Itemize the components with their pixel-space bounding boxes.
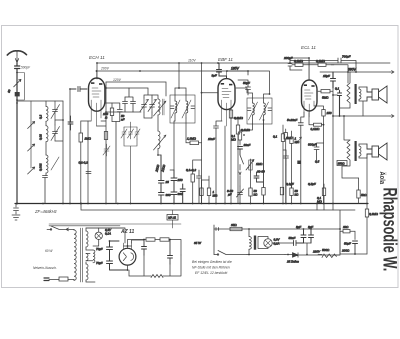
switch det: [239, 155, 244, 186]
wire vertical 88: [87, 121, 89, 204]
resistor 5MOhm ECL: [321, 90, 330, 93]
trimmer gang 1: [140, 98, 149, 112]
svg-text:35 W: 35 W: [194, 241, 202, 245]
svg-text:0,02: 0,02: [39, 134, 43, 140]
svg-text:50pF: 50pF: [243, 81, 250, 85]
arrow lead 1: [390, 71, 394, 74]
capacitor avc: [284, 150, 289, 165]
wire 174 vertical: [170, 121, 175, 170]
potentiometer 1MOhm: [246, 159, 254, 172]
wire 179 vertical: [175, 63, 186, 91]
wire IF1: [175, 88, 186, 121]
coil L3: [46, 155, 48, 173]
ground with 10nF: [12, 204, 20, 221]
junction osc dots: [105, 111, 107, 113]
power transformer secondary mid: [86, 254, 88, 261]
resistor 2k right: [343, 230, 350, 233]
IF2 capacitor a: [248, 108, 252, 111]
capacitor 330 osc: [159, 193, 165, 204]
trimmer small under ECH: [103, 144, 110, 156]
IF1 capacitor b: [191, 106, 195, 109]
wire avc branch: [283, 150, 286, 204]
svg-text:70μF: 70μF: [96, 247, 103, 251]
wire pot down: [250, 172, 252, 188]
svg-text:700pF: 700pF: [342, 55, 351, 59]
main ground bus: [15, 203, 368, 205]
coil osc 2: [158, 131, 160, 149]
svg-text:5MΩ: 5MΩ: [322, 96, 329, 100]
wire EBF cathode down: [224, 126, 226, 204]
wire gang top: [106, 88, 152, 98]
capacitor filter a: [142, 240, 147, 256]
capacitor osc b: [125, 88, 136, 112]
title Rhapsodie W rotated: [379, 188, 400, 272]
border frame of scanned page: [2, 26, 399, 288]
svg-text:Ω: Ω: [105, 116, 108, 120]
coil osc 1: [158, 99, 160, 115]
padder trimmer row: [121, 127, 127, 139]
wire MA11: [86, 210, 173, 228]
capacitor 25 osc: [159, 155, 165, 193]
wire diode left: [247, 254, 285, 256]
output transformer T1 primary: [340, 72, 351, 108]
wire padder row: [124, 122, 137, 204]
wire EBF11 grid left: [202, 93, 219, 180]
svg-text:0,1μF: 0,1μF: [286, 182, 294, 186]
IF1 arrows: [171, 100, 191, 118]
capacitor 70uF b: [107, 241, 128, 270]
svg-text:500Ω: 500Ω: [322, 248, 330, 252]
svg-text:MΩ: MΩ: [213, 194, 218, 198]
svg-text:9pF: 9pF: [212, 74, 217, 78]
output transformer T2 secondary: [359, 144, 367, 158]
svg-text:50nF: 50nF: [289, 236, 296, 240]
svg-text:0,5μF: 0,5μF: [308, 182, 316, 186]
svg-text:330: 330: [166, 193, 171, 197]
svg-text:30-80: 30-80: [257, 170, 265, 174]
resistor 0.2MOhm screen: [229, 110, 232, 118]
resistor det return b: [207, 188, 210, 196]
field coil zigzag: [151, 275, 163, 278]
lamp transformer primary: [249, 237, 251, 250]
resistor 0.1MOhm EBF: [236, 125, 239, 134]
svg-text:AZ 11: AZ 11: [120, 229, 134, 235]
svg-text:0,1MΩ: 0,1MΩ: [316, 59, 326, 63]
box MA11: [167, 215, 178, 221]
trimmer 8-50: [237, 186, 244, 204]
resistor small mid: [191, 174, 194, 182]
svg-text:150: 150: [327, 111, 332, 115]
speaker 1: [372, 89, 379, 100]
coil L1: [46, 106, 48, 121]
wire between filters: [155, 239, 160, 241]
connector heater: [214, 225, 219, 255]
capacitor 50pF: [227, 71, 251, 95]
output transformer T1 core: [355, 84, 357, 104]
wire zigzag: [318, 229, 340, 255]
wire field coil: [129, 255, 181, 276]
svg-text:0,1A: 0,1A: [274, 241, 280, 245]
trimmer cap T1: [51, 101, 60, 120]
capacitor 0.1 ECL: [338, 91, 342, 117]
wire ECL top loop: [290, 58, 309, 80]
resistor agc a: [280, 187, 283, 195]
rectifier AZ11: [119, 248, 136, 265]
svg-text:0,2: 0,2: [39, 114, 43, 119]
logo Aola rotated: [378, 172, 387, 185]
svg-text:390V: 390V: [348, 68, 357, 72]
resistor 0.1M det: [238, 132, 241, 140]
resistor 1MOhm grid: [79, 133, 83, 142]
capacitor filter b: [168, 240, 173, 265]
power transformer core: [81, 228, 83, 282]
switch tone: [297, 137, 302, 144]
wire 8uF join: [304, 243, 312, 255]
IF1 coil a: [175, 101, 177, 113]
IF2 capacitor b: [268, 108, 272, 111]
resistor det load: [262, 188, 265, 196]
wire lower heater bus: [81, 204, 355, 230]
resistor agc b: [290, 188, 293, 196]
fuse mains: [59, 277, 68, 281]
svg-text:kΩ: kΩ: [254, 193, 259, 197]
capacitor 500pF: [15, 63, 20, 204]
wire lamp transformer: [249, 229, 268, 255]
lamp dial 2: [264, 239, 272, 247]
resistor 500 Ohm zigzag: [322, 254, 336, 258]
svg-text:200V: 200V: [100, 67, 110, 71]
wire IF2 top: [248, 93, 270, 124]
svg-text:25 Zellen: 25 Zellen: [286, 260, 299, 264]
capacitor 2000: [43, 176, 48, 204]
capacitor 50-80: [254, 120, 264, 204]
tube ECL11: [302, 80, 318, 111]
resistor 0.2MOhm right: [365, 209, 368, 217]
speaker 2: [372, 146, 379, 157]
svg-text:5÷20nF: 5÷20nF: [287, 118, 297, 122]
svg-text:60 W: 60 W: [45, 249, 53, 253]
capacitor 330b: [171, 188, 177, 204]
svg-text:70μF: 70μF: [96, 261, 103, 265]
capacitor 100pF: [70, 87, 87, 92]
wire 200V rail: [97, 71, 270, 94]
capacitor 10nF EBF: [214, 121, 223, 204]
svg-text:0,1A: 0,1A: [105, 232, 111, 236]
resistor det return a: [200, 188, 203, 196]
trimmer arrow osc 2: [154, 135, 167, 150]
svg-text:0,002: 0,002: [39, 163, 43, 171]
junction dots mid: [201, 92, 203, 94]
resistor 5MOhm avc: [281, 134, 284, 142]
wire coil column: [45, 101, 47, 176]
resistor 0.1MOhm ECL b: [318, 63, 326, 66]
wire 110V rail: [97, 63, 390, 79]
svg-text:10nF: 10nF: [244, 143, 251, 147]
resistor 150 cathode: [322, 110, 325, 117]
wire vertical 63: [55, 101, 63, 204]
capacitor electrolytic ECL: [297, 161, 300, 165]
trimmer cap T2: [51, 125, 60, 141]
capacitor cathode: [112, 103, 122, 204]
svg-text:EF 12/EL 12 bestückt: EF 12/EL 12 bestückt: [195, 271, 228, 275]
wire feedback osc: [144, 112, 161, 155]
capacitor 88 branch: [86, 172, 91, 174]
svg-text:MΩ: MΩ: [317, 200, 322, 204]
svg-text:0,1-0,2: 0,1-0,2: [79, 161, 89, 165]
svg-text:kΩ: kΩ: [295, 193, 300, 197]
antenna: [7, 51, 26, 55]
wire band switch rail: [30, 101, 32, 168]
svg-text:EBF 11: EBF 11: [218, 57, 233, 62]
svg-text:5kΩ: 5kΩ: [361, 193, 367, 197]
capacitor coupling ECL grid: [298, 112, 304, 204]
svg-text:MΩ: MΩ: [231, 138, 236, 142]
resistor filter a: [146, 238, 155, 241]
svg-text:0,2MΩ: 0,2MΩ: [369, 212, 379, 216]
core osc 1: [163, 99, 165, 115]
output transformer T1 secondary: [359, 87, 367, 116]
svg-text:0,1MΩ: 0,1MΩ: [311, 127, 321, 131]
capacitor 10nF det: [238, 147, 243, 156]
capacitor 700pF: [290, 58, 356, 72]
capacitor cathode bypass mid: [180, 184, 185, 204]
resistor grid b: [290, 137, 293, 144]
wire antenna bypass: [17, 73, 24, 101]
IF2 coil b: [264, 103, 266, 115]
svg-text:Äola: Äola: [378, 172, 387, 185]
resistor grid a: [284, 133, 287, 140]
tube ECH11: [89, 78, 105, 111]
svg-text:MΩ: MΩ: [295, 140, 300, 144]
svg-text:50μF: 50μF: [344, 242, 351, 246]
svg-text:1MΩ: 1MΩ: [256, 162, 263, 166]
svg-text:0,1: 0,1: [335, 87, 340, 91]
svg-text:35Ω: 35Ω: [231, 223, 237, 227]
power transformer secondary HT top: [86, 231, 88, 247]
svg-text:110V: 110V: [188, 59, 196, 63]
coil L2: [46, 126, 48, 142]
resistor filter b: [160, 238, 169, 241]
switch band 1: [28, 122, 35, 129]
wire EBF anode to IF2: [236, 88, 247, 93]
resistor 1.3MOhm: [190, 141, 199, 145]
switch antenna: [14, 79, 21, 86]
svg-text:350Ω: 350Ω: [338, 162, 346, 166]
trimmer arrow 3: [51, 157, 59, 170]
filter line: [144, 239, 146, 241]
capacitor 9pF anode: [217, 63, 227, 79]
wire antenna tap: [17, 100, 63, 102]
resistor 350 Ohm field: [337, 161, 347, 166]
capacitor 70uF a: [107, 241, 113, 256]
svg-text:8μF: 8μF: [296, 225, 301, 229]
svg-text:185V: 185V: [231, 66, 240, 70]
wire right bottom: [340, 231, 367, 254]
svg-text:10nF: 10nF: [208, 137, 215, 141]
capacitor 8uF b: [309, 229, 314, 243]
svg-text:ZF=468kHz: ZF=468kHz: [34, 209, 58, 214]
svg-text:Netzein./Aussch.: Netzein./Aussch.: [33, 266, 57, 270]
capacitor 15uF ECL: [331, 72, 336, 88]
svg-text:MA 11: MA 11: [168, 216, 176, 220]
IF2 arrows: [249, 102, 269, 120]
switch band 2: [28, 144, 35, 151]
capacitor 50nF series: [294, 241, 304, 246]
wire 200 vertical: [201, 63, 203, 204]
mains plug: [44, 278, 49, 281]
heater line 35ohm: [214, 228, 340, 230]
power transformer primary: [74, 230, 76, 280]
wire extra drops: [316, 204, 318, 211]
wire avc: [282, 125, 284, 134]
wire AZ11 cathode out: [124, 240, 145, 271]
svg-text:1,3MΩ: 1,3MΩ: [187, 137, 197, 141]
IF1 capacitor a: [171, 106, 175, 109]
lamp transformer core: [254, 236, 256, 250]
capacitor mid 25: [197, 170, 202, 204]
svg-text:0,1: 0,1: [273, 135, 278, 139]
IF1 coil b: [186, 101, 188, 113]
svg-text:15μF: 15μF: [323, 74, 330, 78]
svg-text:0,5: 0,5: [315, 160, 320, 164]
wire 0.1M row: [331, 65, 348, 83]
switch band 3: [28, 167, 35, 174]
svg-text:ECL 11: ECL 11: [301, 45, 316, 50]
wire 120V rail: [106, 82, 166, 96]
capacitor padding left: [68, 116, 73, 130]
svg-text:nF: nF: [121, 118, 125, 122]
wire AZ11 heater: [132, 240, 145, 243]
svg-text:220V: 220V: [312, 250, 321, 254]
svg-text:ECH 11: ECH 11: [89, 55, 105, 60]
resistor 0.1MOhm ECL a: [295, 63, 303, 66]
junction dots main bus: [16, 57, 368, 271]
trimmer gang 2: [148, 98, 157, 112]
resistor 0.1M cathode link: [314, 123, 322, 126]
IF2 coil a: [253, 103, 255, 115]
capacitor 8uF a: [301, 229, 306, 243]
wire osc top: [106, 111, 141, 113]
detector wires: [240, 124, 253, 132]
resistor 50k osc: [104, 132, 107, 140]
svg-text:50: 50: [7, 89, 12, 94]
power transformer secondary HT bottom: [86, 264, 88, 280]
svg-text:25: 25: [165, 180, 170, 184]
wire osc coils: [152, 95, 158, 155]
resistor 150 Ohm: [110, 108, 113, 116]
capacitor 150b: [171, 170, 177, 188]
output transformer T2 core: [355, 141, 357, 161]
switch mains: [47, 226, 74, 231]
junction dots bottom: [248, 228, 250, 230]
switch bottom: [214, 251, 247, 255]
svg-text:μF: μF: [227, 193, 232, 197]
svg-text:0,1MΩ: 0,1MΩ: [294, 59, 304, 63]
svg-text:150: 150: [178, 178, 183, 182]
svg-text:2kΩ: 2kΩ: [342, 225, 349, 229]
wire lower rail: [333, 116, 390, 140]
wire ECH11 cathode down: [81, 82, 106, 204]
svg-text:Rhapsodie W.: Rhapsodie W.: [379, 188, 400, 272]
arrow lead 2: [390, 115, 394, 118]
trimmer arrow osc 1: [154, 101, 167, 116]
resistor 5k right: [357, 190, 360, 198]
svg-text:Bei einigen Geräten ist die: Bei einigen Geräten ist die: [192, 260, 232, 264]
lamp dial PSU: [95, 232, 102, 239]
svg-text:800pF: 800pF: [308, 143, 317, 147]
svg-text:0,1+0,2: 0,1+0,2: [186, 168, 196, 172]
fuse S: [15, 92, 20, 96]
svg-text:NF-Stufe mit den Röhren: NF-Stufe mit den Röhren: [192, 266, 230, 270]
wire speaker rail: [320, 71, 390, 73]
svg-text:120V: 120V: [113, 78, 122, 82]
IF transformer 2 box: [247, 98, 272, 124]
capacitor 800pF: [314, 143, 323, 160]
resistor 50kOhm det: [249, 188, 252, 196]
resistor 35 Ohm: [230, 227, 242, 230]
wire psu top pair: [49, 224, 181, 226]
diode selenium: [285, 253, 340, 258]
capacitor osc a: [123, 97, 128, 112]
svg-text:200Ω: 200Ω: [341, 249, 350, 253]
wire vertical 70: [69, 89, 71, 204]
wire HT to AZ11: [86, 228, 125, 282]
svg-text:500pF: 500pF: [21, 66, 31, 70]
resistor out c: [322, 188, 325, 196]
capacitor 50uF right: [353, 241, 358, 254]
svg-text:330: 330: [178, 192, 183, 196]
capacitor 200pF ECL grid: [288, 60, 292, 70]
IF transformer 1 box: [170, 95, 195, 123]
junction dots left: [16, 102, 18, 104]
tube EBF11: [218, 79, 235, 110]
heater winding aux: [93, 250, 95, 263]
output transformer T2 primary: [342, 140, 359, 178]
